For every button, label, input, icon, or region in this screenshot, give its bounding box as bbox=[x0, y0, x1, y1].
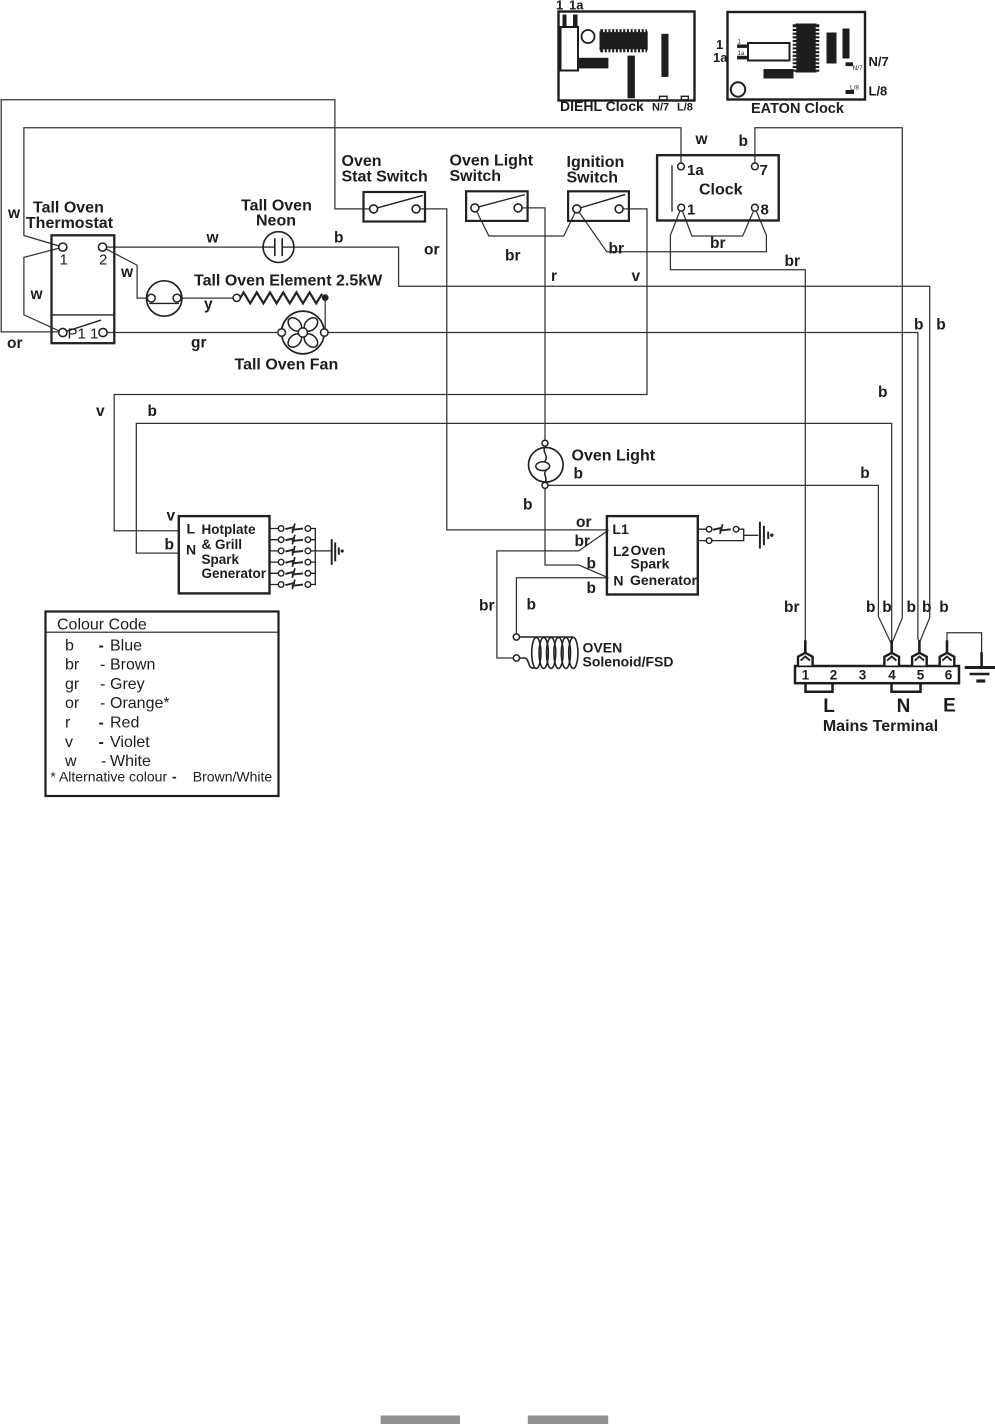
svg-text:r: r bbox=[551, 268, 557, 285]
earth symbol bbox=[966, 654, 995, 682]
svg-text:Orange*: Orange* bbox=[110, 695, 170, 712]
wire: r from Oven Light Switch down to Oven Light bbox=[518, 208, 545, 441]
svg-text:w: w bbox=[206, 229, 220, 246]
svg-text:Switch: Switch bbox=[567, 170, 619, 187]
wire: w from thermostat terminal 2 to thermal cutout bbox=[103, 247, 148, 298]
DIEHL IC bbox=[600, 29, 648, 52]
svg-text:L: L bbox=[187, 521, 196, 537]
svg-text:2: 2 bbox=[99, 252, 107, 269]
EATON board outline bbox=[728, 12, 866, 100]
colour code box bbox=[46, 612, 279, 797]
oven spark electrode bbox=[760, 523, 768, 548]
svg-text:Switch: Switch bbox=[450, 168, 502, 185]
svg-text:Spark: Spark bbox=[631, 556, 670, 572]
element resistor (Tall Oven Element 2.5kW) bbox=[240, 292, 321, 303]
DIEHL component bars bbox=[578, 58, 608, 69]
svg-text:Hotplate: Hotplate bbox=[202, 522, 256, 537]
svg-text:Brown/White: Brown/White bbox=[193, 769, 273, 785]
svg-text:1a: 1a bbox=[713, 50, 728, 65]
svg-text:7: 7 bbox=[760, 162, 768, 179]
grey bar left (page footer) bbox=[381, 1416, 460, 1424]
svg-text:w: w bbox=[30, 286, 44, 303]
EATON pins bbox=[737, 45, 748, 48]
wire: br bridge Clock terminal 1 to terminal 8 bbox=[681, 208, 755, 236]
element right junction dot bbox=[322, 294, 329, 301]
svg-text:gr: gr bbox=[191, 334, 207, 351]
EATON relay bbox=[748, 43, 790, 61]
EATON N/7 pad bbox=[846, 62, 854, 66]
svg-text:-: - bbox=[99, 734, 104, 751]
DIEHL crystal circle bbox=[582, 30, 595, 43]
DIEHL relay bbox=[561, 27, 579, 71]
svg-text:-: - bbox=[172, 769, 177, 785]
svg-text:-: - bbox=[100, 657, 105, 674]
EATON L/8 pad bbox=[846, 90, 855, 94]
wire labels (switch area) bbox=[424, 131, 800, 285]
mains N bracket bbox=[892, 683, 921, 692]
wire labels (middle area) bbox=[96, 403, 596, 615]
svg-text:gr: gr bbox=[65, 676, 80, 693]
svg-text:Tall Oven Element 2.5kW: Tall Oven Element 2.5kW bbox=[194, 273, 383, 290]
wire: b from Clock terminal 7 to mains terminal 4 bbox=[755, 128, 902, 642]
svg-text:b: b bbox=[527, 597, 536, 614]
svg-text:b: b bbox=[936, 317, 945, 334]
mains terminal numbers bbox=[802, 667, 953, 682]
svg-text:w: w bbox=[7, 205, 21, 222]
EATON component bars bbox=[827, 33, 837, 64]
wire: w from thermostat terminal 1 up to Clock 1a bbox=[24, 128, 681, 247]
svg-text:E: E bbox=[943, 696, 956, 717]
Oven Stat Switch box bbox=[364, 192, 426, 222]
svg-text:Colour Code: Colour Code bbox=[57, 617, 147, 634]
wire: or loop from mains of thermostat P1 up over to Oven Stat Switch bbox=[1, 100, 373, 332]
Hotplate & Grill Spark Generator box bbox=[179, 516, 270, 593]
svg-text:b: b bbox=[148, 403, 157, 420]
svg-text:br: br bbox=[575, 533, 591, 550]
svg-text:or: or bbox=[576, 514, 592, 531]
thermal cutout circle bbox=[147, 281, 182, 316]
wire: br from Clock terminal 1 to mains terminal 1 bbox=[670, 208, 805, 642]
DIEHL board outline bbox=[559, 12, 695, 101]
svg-text:1: 1 bbox=[687, 202, 695, 219]
svg-text:6: 6 bbox=[945, 667, 953, 682]
svg-text:L/8: L/8 bbox=[850, 85, 859, 92]
svg-text:b: b bbox=[914, 317, 923, 334]
svg-text:5: 5 bbox=[917, 667, 925, 682]
wire: b from Oven Light to mains terminal 4 bbox=[545, 485, 890, 641]
svg-text:-: - bbox=[99, 715, 104, 732]
Clock terminals 1a,7,1,8 bbox=[678, 163, 759, 211]
EATON IC bbox=[793, 24, 820, 73]
hotplate electrode bbox=[332, 540, 339, 564]
svg-text:P1 1: P1 1 bbox=[68, 326, 99, 343]
svg-text:br: br bbox=[784, 599, 800, 616]
wire labels (right area) bbox=[784, 317, 949, 616]
mains spade connectors 1,4,5,6 bbox=[798, 653, 954, 666]
svg-text:N: N bbox=[613, 572, 623, 588]
svg-text:br: br bbox=[65, 657, 80, 674]
svg-text:N/7: N/7 bbox=[652, 102, 669, 114]
svg-text:or: or bbox=[65, 695, 80, 712]
wire: b from Oven Solenoid to Oven Spark Generator N bbox=[516, 578, 607, 637]
svg-text:br: br bbox=[479, 598, 495, 615]
svg-text:N: N bbox=[897, 696, 911, 717]
svg-text:L/8: L/8 bbox=[869, 84, 888, 99]
svg-text:b: b bbox=[574, 466, 583, 483]
svg-text:L1: L1 bbox=[612, 521, 629, 537]
svg-text:b: b bbox=[882, 599, 891, 616]
svg-text:or: or bbox=[7, 335, 23, 352]
oven spark gap bbox=[698, 529, 758, 540]
svg-text:N: N bbox=[186, 542, 196, 558]
svg-text:Mains Terminal: Mains Terminal bbox=[823, 718, 938, 735]
svg-text:w: w bbox=[695, 131, 709, 148]
svg-text:br: br bbox=[710, 235, 726, 252]
svg-text:Oven Light: Oven Light bbox=[572, 448, 656, 465]
svg-text:b: b bbox=[739, 133, 748, 150]
svg-text:DIEHL Clock: DIEHL Clock bbox=[560, 98, 644, 114]
DIEHL pins bbox=[563, 15, 567, 28]
svg-text:L/8: L/8 bbox=[677, 102, 693, 114]
wire: w/b from thermostat terminal 2 through neon, b to mains terminal 5 bbox=[103, 247, 930, 642]
DIEHL clock module bbox=[556, 0, 695, 114]
svg-text:Neon: Neon bbox=[256, 213, 296, 230]
svg-text:2: 2 bbox=[830, 667, 838, 682]
svg-text:y: y bbox=[204, 296, 213, 313]
wire: br from Oven Solenoid to Oven Spark Generator L1 bbox=[497, 531, 608, 658]
svg-text:* Alternative colour: * Alternative colour bbox=[50, 769, 167, 785]
svg-text:or: or bbox=[424, 242, 440, 259]
svg-text:-: - bbox=[99, 637, 104, 654]
svg-text:br: br bbox=[505, 247, 521, 264]
wire: v from Ignition Switch to Hotplate Spark Generator L bbox=[114, 209, 647, 531]
svg-text:b: b bbox=[866, 599, 875, 616]
svg-text:& Grill: & Grill bbox=[202, 537, 243, 552]
oven spark bolt bbox=[714, 525, 730, 533]
svg-text:Spark: Spark bbox=[202, 552, 240, 567]
svg-text:v: v bbox=[632, 268, 641, 285]
wire: br from Ignition Switch to Clock terminal 8 bbox=[577, 208, 767, 252]
mains L bracket bbox=[806, 683, 833, 692]
mains terminal block bbox=[795, 666, 959, 683]
svg-text:Violet: Violet bbox=[110, 734, 150, 751]
svg-text:v: v bbox=[96, 403, 105, 420]
svg-text:b: b bbox=[65, 637, 74, 654]
svg-text:b: b bbox=[523, 497, 532, 514]
wire: w from thermostat terminal 1 down to P1 bbox=[24, 247, 63, 332]
svg-text:b: b bbox=[939, 599, 948, 616]
Oven Spark Generator box bbox=[607, 516, 698, 594]
Ignition Switch box bbox=[568, 191, 629, 221]
svg-text:b: b bbox=[878, 384, 887, 401]
svg-text:br: br bbox=[785, 253, 801, 270]
svg-text:b: b bbox=[334, 229, 343, 246]
hotplate spark gap rows bbox=[270, 529, 331, 585]
svg-text:N/7: N/7 bbox=[869, 54, 889, 69]
svg-text:Clock: Clock bbox=[699, 182, 743, 199]
DIEHL pads N/7 L/8 bbox=[660, 96, 668, 100]
svg-text:EATON Clock: EATON Clock bbox=[751, 101, 845, 117]
EATON clock module bbox=[713, 12, 889, 117]
wire: b from Hotplate Spark Generator N to mains terminal 4 bbox=[136, 423, 891, 641]
svg-text:-: - bbox=[100, 676, 105, 693]
svg-text:Grey: Grey bbox=[110, 676, 145, 693]
wire: gr from thermostat bottom terminal to fan, fan to mains terminal 5 bbox=[103, 333, 919, 642]
svg-text:w: w bbox=[120, 264, 134, 281]
svg-text:8: 8 bbox=[761, 202, 769, 219]
svg-text:Brown: Brown bbox=[110, 657, 155, 674]
svg-text:3: 3 bbox=[859, 667, 867, 682]
svg-text:v: v bbox=[65, 734, 73, 751]
svg-text:N/7: N/7 bbox=[853, 65, 864, 72]
svg-text:br: br bbox=[609, 240, 625, 257]
svg-text:b: b bbox=[587, 555, 596, 572]
svg-text:1a: 1a bbox=[687, 162, 704, 179]
svg-text:1: 1 bbox=[802, 667, 810, 682]
wire: y from thermal cutout to element bbox=[181, 297, 233, 299]
Oven Light lamp bbox=[529, 446, 564, 482]
thermostat terminals 1,2,P1,1 bbox=[59, 243, 107, 337]
Oven Light Switch box bbox=[466, 191, 527, 221]
neon (Tall Oven Neon) bbox=[263, 232, 294, 263]
Clock box bbox=[657, 155, 779, 220]
wire: earth from mains terminal 6 bbox=[947, 633, 982, 654]
svg-text:r: r bbox=[65, 715, 71, 732]
colour code rows bbox=[64, 637, 170, 770]
grey bar right (page footer) bbox=[528, 1416, 608, 1424]
thermostat box (Tall Oven Thermostat) bbox=[52, 235, 115, 343]
svg-text:Tall Oven: Tall Oven bbox=[33, 200, 104, 217]
svg-text:Thermostat: Thermostat bbox=[26, 215, 114, 232]
wire: b from Oven Light down to Oven Spark Generator N bbox=[545, 485, 608, 577]
svg-text:1: 1 bbox=[60, 252, 68, 269]
svg-text:b: b bbox=[922, 599, 931, 616]
wire: element right terminal down to fan bbox=[324, 298, 326, 333]
svg-text:-: - bbox=[100, 695, 105, 712]
OVEN Solenoid/FSD coil bbox=[519, 637, 578, 668]
svg-text:Red: Red bbox=[110, 715, 139, 732]
EATON circle bbox=[731, 82, 745, 96]
svg-text:L2: L2 bbox=[613, 543, 630, 559]
svg-text:Generator: Generator bbox=[630, 572, 697, 588]
svg-text:v: v bbox=[167, 507, 176, 524]
svg-text:L: L bbox=[823, 696, 835, 717]
svg-text:4: 4 bbox=[888, 667, 896, 682]
svg-text:b: b bbox=[165, 537, 174, 554]
svg-text:b: b bbox=[907, 599, 916, 616]
svg-text:Blue: Blue bbox=[110, 637, 142, 654]
svg-text:b: b bbox=[587, 580, 596, 597]
svg-text:Stat Switch: Stat Switch bbox=[342, 168, 428, 185]
wire: or from Oven Stat Switch to Oven Spark Generator L1 bbox=[416, 209, 608, 530]
svg-text:Tall Oven Fan: Tall Oven Fan bbox=[235, 357, 339, 374]
svg-text:Generator: Generator bbox=[202, 566, 267, 581]
mains spade stubs bbox=[805, 642, 947, 655]
svg-text:1a: 1a bbox=[738, 51, 745, 57]
svg-text:b: b bbox=[860, 465, 869, 482]
wire labels (left area) bbox=[7, 205, 343, 352]
svg-text:Solenoid/FSD: Solenoid/FSD bbox=[583, 653, 674, 669]
wire: br from Oven Light Switch to Ignition Switch bbox=[475, 208, 577, 236]
fan (Tall Oven Fan) bbox=[282, 311, 325, 354]
